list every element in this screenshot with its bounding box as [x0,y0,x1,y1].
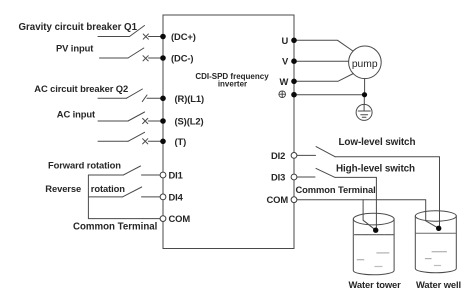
terminal DI3 [291,174,297,180]
svg-text:Common Terminal: Common Terminal [296,184,376,195]
breaker tick R [142,95,147,102]
earth bar 2 [361,114,368,116]
svg-text:PV input: PV input [56,42,93,53]
terminal DI4 [160,194,166,200]
node DC- [160,55,166,61]
terminal DI1 [160,172,166,178]
low-level switch blade [316,147,335,157]
circuit breaker Q1 blade [130,26,145,37]
terminal COM right [291,197,297,203]
wire PV input [100,57,129,59]
svg-text:W: W [280,76,289,87]
svg-text:Low-level switch: Low-level switch [339,137,416,148]
node DC+ [160,34,166,40]
wire W to pump [294,74,353,82]
wire S input [98,120,128,122]
contact X (S) [143,118,148,123]
svg-text:rotation: rotation [91,183,125,194]
svg-text:Reverse: Reverse [45,183,81,194]
wire to S [148,120,163,122]
wire V to pump [294,60,349,62]
wire high-level to tower [335,177,376,229]
high-level switch blade [316,168,335,177]
switch T blade [128,132,145,141]
water tower cylinder [353,213,394,225]
float switch well [436,226,441,231]
wire R input [98,97,126,99]
switch S blade [128,112,145,121]
wire to DC- [149,57,164,59]
terminal DI2 [291,153,297,159]
svg-text:pump: pump [352,59,378,70]
svg-text:DI4: DI4 [169,192,184,203]
contact X (DC-) [143,56,148,61]
svg-text:(R)(L1): (R)(L1) [175,93,205,104]
bracket bus left [87,175,89,219]
svg-text:inverter: inverter [218,80,247,89]
PE terminal symbol [279,91,286,98]
svg-text:AC input: AC input [57,109,95,120]
wire junction to earth [363,95,365,105]
wire pump to PE junction [364,79,366,95]
svg-text:COM: COM [169,213,191,224]
wire COM branch to tower [363,200,376,231]
svg-text:DI1: DI1 [169,170,183,181]
watermark dashes tower [357,253,390,267]
wire DI3 [297,176,315,178]
svg-text:Water tower: Water tower [349,279,402,290]
water well cylinder [415,211,456,221]
wire COM right [297,200,439,229]
water well level line [416,232,456,234]
svg-text:(DC+): (DC+) [171,31,196,42]
switch reverse blade DI4 [123,187,142,197]
pump motor circle [349,46,382,79]
node R [160,96,166,102]
svg-text:DI2: DI2 [271,150,285,161]
wire to T [148,140,163,142]
earth bar 1 [358,110,370,112]
wire T input [98,140,128,142]
wire to R [147,97,163,99]
svg-text:(S)(L2): (S)(L2) [175,116,204,127]
wire COM left [88,218,160,220]
breaker contact X (DC+) [143,34,148,39]
earth bar 3 [362,116,366,118]
node PE [291,92,297,98]
switch forward blade DI1 [123,166,140,175]
contact X (T) [143,139,148,144]
wire to DI1 [142,174,161,176]
wire U to pump [294,40,353,51]
wire DI1 [88,174,123,176]
svg-text:Common Terminal: Common Terminal [73,222,157,233]
svg-text:Forward rotation: Forward rotation [48,160,121,171]
wire DI4 [88,196,122,198]
wire DI2 [297,154,316,156]
svg-text:(DC-): (DC-) [171,53,193,64]
earth stub [363,104,365,111]
switch PV blade [128,48,144,58]
svg-text:Water well: Water well [416,279,461,290]
watermark dashes well [425,252,447,266]
svg-text:(T): (T) [175,136,187,147]
node S [160,118,166,124]
svg-text:High-level switch: High-level switch [336,164,415,175]
inverter box U1 [163,15,294,249]
svg-text:V: V [282,56,289,67]
float switch tower [373,228,378,233]
node T [160,139,166,145]
water tower level line [355,234,394,236]
node U [291,38,297,44]
node W [291,79,297,85]
svg-text:Gravity circuit breaker Q1: Gravity circuit breaker Q1 [19,22,138,33]
wire low-level to well [335,157,440,226]
terminal COM left [160,216,166,222]
wire to DC+ [149,36,164,38]
circuit breaker Q2 blade [126,89,142,98]
svg-text:U: U [282,35,289,46]
svg-text:AC circuit breaker Q2: AC circuit breaker Q2 [34,83,128,94]
wire Q1 input [98,36,130,38]
wire to DI4 [142,196,161,198]
svg-text:COM: COM [267,194,289,205]
node V [291,58,297,64]
wire PE [294,94,365,96]
protective earth circle [356,104,372,120]
svg-text:DI3: DI3 [271,172,285,183]
junction pump earth [362,92,367,97]
